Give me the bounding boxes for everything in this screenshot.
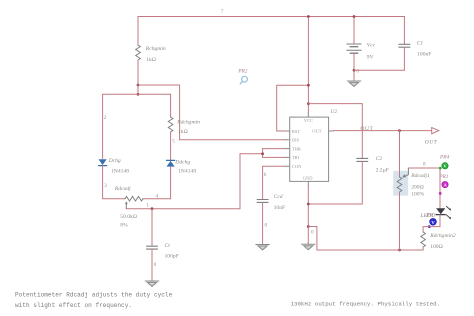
svg-text:PR3: PR3 [425, 212, 436, 218]
svg-text:Rdcadj1: Rdcadj1 [410, 173, 430, 179]
probe PR3 [425, 212, 436, 228]
wire THR-TRG tie [262, 149, 264, 158]
wire junction down to Ct [151, 209, 153, 246]
svg-text:Rdchgmin2: Rdchgmin2 [429, 233, 456, 239]
resistor Rdchgmin2 [421, 232, 426, 247]
junction wiper net [151, 207, 154, 210]
ground G4 [302, 244, 316, 249]
svg-text:PR2: PR2 [237, 68, 248, 74]
svg-text:10nF: 10nF [274, 205, 286, 211]
resistor Rdchgmin [168, 117, 173, 132]
wire OUT junction down to pot [399, 131, 401, 177]
wire DIS riser vertical [179, 85, 181, 140]
svg-text:3: 3 [104, 183, 107, 189]
wire CON to Ccd [263, 166, 285, 199]
wire GND vertical [307, 186, 309, 244]
wire Ddchg anode to pot right [143, 167, 171, 199]
svg-text:2: 2 [104, 115, 107, 121]
svg-text:Dchg: Dchg [108, 158, 121, 164]
svg-text:130kHz output frequency. Physi: 130kHz output frequency. Physically test… [291, 301, 441, 308]
junction C2 tie [307, 102, 310, 105]
svg-text:TRI: TRI [292, 155, 300, 160]
junction battery rail [353, 15, 356, 18]
diode Dchg [99, 159, 107, 165]
svg-text:1kΩ: 1kΩ [146, 57, 156, 63]
wire Rdchgmin bottom to Ddchg [170, 132, 172, 160]
probe PR1 [438, 174, 449, 195]
svg-text:200Ω: 200Ω [411, 185, 424, 191]
svg-text:0: 0 [265, 223, 268, 229]
wire DIS horizontal [180, 139, 285, 141]
junction A [137, 84, 140, 87]
op-amp U2 555 timer box [285, 109, 337, 186]
svg-text:C1: C1 [417, 40, 424, 46]
junction THR TRG [261, 152, 264, 155]
svg-text:OUT: OUT [360, 126, 373, 132]
svg-text:1: 1 [146, 203, 149, 209]
wire gnd jog to bottom rail [308, 227, 423, 251]
svg-text:100%: 100% [411, 191, 424, 197]
wire top VCC rail net 7 [138, 16, 404, 18]
ground G1 [347, 81, 361, 86]
svg-text:RST: RST [292, 129, 301, 134]
svg-text:Vcc: Vcc [367, 42, 376, 48]
wire Ccd bottom to ground [262, 202, 264, 244]
junction RST tie [307, 84, 310, 87]
capacitor C1 [399, 44, 410, 47]
battery Vcc 9V [347, 44, 361, 53]
potentiometer Rdcadj1 [397, 168, 408, 192]
ground G2 [145, 281, 159, 286]
wire RST to VCC loop [277, 85, 309, 131]
svg-text:Rchgmin: Rchgmin [145, 46, 166, 52]
capacitor Ct [147, 246, 158, 249]
wire C1 top lead [403, 17, 405, 45]
svg-text:0: 0 [154, 262, 157, 268]
capacitor C2 [357, 158, 368, 161]
battery Vcc top lead [353, 17, 355, 45]
LED LED1 [436, 206, 451, 218]
svg-text:Ddchg: Ddchg [174, 159, 190, 165]
wire wiper to LED chain [408, 168, 440, 208]
junction battery C1 return [353, 69, 356, 72]
wire Rchgmin top lead [137, 17, 139, 46]
wire THR stub [263, 148, 285, 150]
svg-text:8%: 8% [120, 222, 128, 228]
svg-text:1N4148: 1N4148 [111, 168, 129, 174]
svg-text:PR4: PR4 [439, 154, 450, 160]
junction OUT [398, 129, 401, 132]
junction bottom rail [398, 249, 401, 252]
wire Rdchgmin top lead [170, 94, 172, 117]
wire C2 bottom return [308, 161, 362, 204]
wire Ct bottom to ground [151, 249, 153, 281]
svg-text:GND: GND [303, 175, 313, 180]
wire OUT [333, 130, 431, 132]
svg-text:100nF: 100nF [417, 51, 431, 57]
svg-text:100pF: 100pF [165, 254, 179, 260]
diode Ddchg [167, 160, 175, 166]
ground G3 [256, 245, 270, 250]
wire net5 horizontal to DIS riser [138, 84, 180, 86]
highlight selection box [393, 171, 408, 196]
svg-text:VCC: VCC [304, 118, 313, 123]
svg-text:CON: CON [292, 164, 302, 169]
junction VCC rail [307, 15, 310, 18]
wire TRG stub [263, 156, 285, 158]
svg-text:9V: 9V [367, 54, 374, 60]
resistor Rchgmin [136, 45, 141, 60]
svg-text:PR1: PR1 [438, 174, 449, 180]
svg-text:U2: U2 [330, 109, 337, 115]
svg-text:6: 6 [264, 172, 267, 178]
wire C2 top branch [308, 104, 362, 159]
svg-text:1kΩ: 1kΩ [178, 129, 188, 135]
svg-text:DIS: DIS [292, 138, 300, 143]
svg-text:OUT: OUT [425, 139, 438, 145]
svg-text:2.2µF: 2.2µF [376, 168, 389, 174]
wire Dchg cathode to pot left [103, 166, 125, 199]
svg-text:7: 7 [221, 9, 224, 15]
svg-text:0: 0 [356, 68, 359, 74]
wire C1 bottom return [354, 47, 404, 70]
svg-text:100Ω: 100Ω [430, 244, 443, 250]
wire net2 horizontal [103, 93, 171, 95]
junction gnd rail [307, 225, 310, 228]
svg-text:Rdchgmin: Rdchgmin [176, 120, 200, 126]
svg-text:THR: THR [292, 146, 301, 151]
svg-text:8: 8 [423, 162, 426, 168]
wire wiper to junction [126, 208, 240, 210]
svg-text:Ct: Ct [165, 243, 171, 249]
probe PR4 [439, 154, 450, 169]
wire battery bottom [353, 53, 355, 81]
capacitor Ccd [257, 200, 268, 203]
svg-text:0: 0 [311, 229, 314, 235]
svg-text:1N4148: 1N4148 [178, 168, 196, 174]
wire Rdchgmin2 bottom [422, 247, 424, 250]
wire THR TRG riser [240, 154, 263, 209]
svg-text:50.0kΩ: 50.0kΩ [120, 214, 137, 220]
svg-text:Ccd: Ccd [274, 194, 283, 200]
probe PR2 unconnected [237, 68, 248, 83]
wire Rchgmin bottom to net junctions [137, 60, 139, 94]
wire left branch down to Dchg [102, 94, 104, 158]
svg-text:Potentiometer Rdcadj adjusts t: Potentiometer Rdcadj adjusts the duty cy… [15, 291, 173, 298]
svg-text:Rdcadj: Rdcadj [114, 186, 131, 192]
svg-text:with slight effect on frequenc: with slight effect on frequency. [15, 302, 132, 309]
svg-text:OUT: OUT [312, 129, 321, 134]
wire pot bottom to rail [399, 192, 401, 250]
wire LED to Rdchgmin2 [423, 215, 440, 232]
off-page connector OUT arrow [432, 128, 439, 134]
wire VCC vertical [307, 17, 309, 113]
svg-text:5: 5 [172, 139, 175, 145]
junction C2 return [307, 203, 310, 206]
junction B [137, 93, 140, 96]
potentiometer Rdcadj [125, 196, 143, 208]
svg-text:C2: C2 [376, 156, 383, 162]
svg-text:4: 4 [156, 194, 159, 200]
